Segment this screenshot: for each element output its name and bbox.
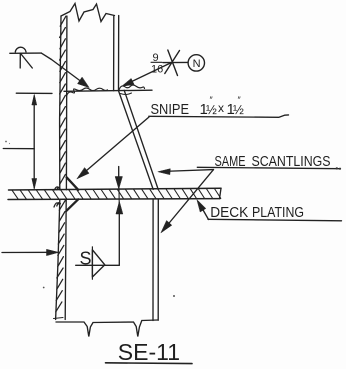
lower stiffener right edge	[157, 200, 159, 321]
9/16 leader arrowhead	[122, 79, 134, 87]
S-symbol leader vertical	[118, 203, 120, 265]
SAME SCANTLINGS leader diagonal	[163, 170, 214, 231]
svg-text:SE: SE	[118, 339, 149, 365]
S-symbol up arrowhead	[116, 202, 123, 215]
wire through deck	[118, 177, 120, 203]
9/16 fraction bar	[151, 61, 162, 63]
SAME SCANTLINGS leader horizontal	[161, 170, 214, 172]
svg-text:16: 16	[151, 64, 163, 76]
deck down-arrowhead	[115, 177, 122, 189]
S-symbol leader horizontal	[76, 264, 120, 266]
sloped bracket line 1	[119, 91, 154, 189]
circle N	[188, 55, 204, 71]
dimension tick upper	[16, 92, 52, 94]
horizontal pointer arrow line	[2, 251, 56, 253]
SAME SCANTLINGS horizontal arrowhead	[158, 169, 170, 175]
svg-text:-11: -11	[149, 339, 181, 365]
svg-text:PLATING: PLATING	[252, 204, 304, 221]
deck down-arrow line	[118, 167, 120, 178]
bulkhead hatching	[56, 16, 66, 312]
horizontal pointer arrowhead	[47, 249, 59, 255]
weld squiggle left	[67, 88, 108, 96]
dimension arrowhead up	[32, 95, 37, 106]
DECK PLATING arrowhead	[197, 200, 206, 212]
SAME SCANTLINGS underline	[197, 167, 339, 168]
weld curls upper-left of bulkhead	[55, 187, 61, 190]
svg-text:x: x	[218, 101, 224, 115]
fillet weld lower-right of bulkhead	[66, 199, 78, 211]
deck hatching	[12, 189, 221, 200]
svg-text:9: 9	[153, 52, 159, 64]
weld curls lower-left of bulkhead	[54, 203, 60, 207]
sloped bracket line 2	[124, 90, 158, 189]
stray tick at bulkhead bottom	[54, 318, 64, 319]
S-symbol triangle	[92, 250, 104, 277]
upper stiffener right edge	[118, 16, 120, 91]
weld symbol vertical leg	[19, 54, 21, 69]
svg-text:DECK: DECK	[210, 204, 248, 221]
dimension tick lower	[3, 148, 34, 150]
upper stiffener left edge	[113, 16, 115, 91]
SNIPE leader	[79, 117, 149, 177]
fillet weld upper-right of bulkhead	[67, 177, 79, 190]
speck dots	[5, 141, 7, 143]
weld squiggle right	[119, 85, 145, 90]
underline end blobs	[336, 167, 338, 169]
DECK PLATING underline	[208, 219, 342, 221]
svg-text:SCANTLINGS: SCANTLINGS	[252, 153, 331, 170]
horizontal plate edge at y=91	[64, 90, 152, 91]
DECK PLATING leader	[199, 202, 209, 220]
SE-11 underline	[106, 362, 193, 365]
svg-text:SNIPE: SNIPE	[151, 101, 190, 118]
9/16 reference line	[163, 61, 188, 63]
X symbol	[165, 50, 180, 76]
weld symbol leader	[41, 53, 86, 85]
vertical dimension line	[33, 96, 35, 188]
deck plating top edge	[9, 188, 222, 190]
svg-text:N: N	[193, 58, 201, 70]
bulkhead right edge (above deck)	[65, 16, 68, 190]
deck plating bottom edge	[8, 198, 220, 201]
bulkhead left edge (above deck)	[60, 16, 61, 190]
SNIPE underline	[149, 115, 289, 117]
weld symbol reference line	[10, 52, 42, 54]
bottom break line	[56, 320, 158, 337]
S-symbol triangle spine overshoot	[91, 247, 93, 279]
weld symbol arc	[15, 47, 26, 52]
SNIPE leader arrowhead	[77, 168, 89, 179]
deck right end cap	[220, 188, 222, 198]
lower stiffener left edge	[152, 200, 154, 321]
9/16 leader	[124, 63, 172, 86]
SAME SCANTLINGS diagonal arrowhead	[161, 221, 172, 233]
bulkhead right edge (below deck)	[65, 200, 66, 320]
svg-text:SAME: SAME	[215, 153, 246, 170]
weld symbol diagonal leg	[21, 54, 33, 69]
bulkhead left edge (below deck)	[56, 200, 60, 320]
dimension arrowhead down	[32, 179, 37, 190]
svg-text:S: S	[80, 249, 92, 269]
weld symbol leader arrowhead	[78, 77, 90, 87]
top break line	[61, 4, 115, 22]
